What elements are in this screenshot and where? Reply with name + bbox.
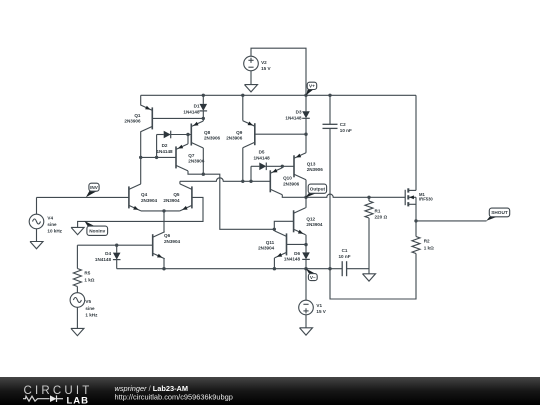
svg-text:15 V: 15 V bbox=[261, 66, 271, 71]
svg-text:Q5: Q5 bbox=[173, 192, 180, 197]
transistor Q12 bbox=[293, 210, 295, 232]
node D1 anode bbox=[202, 94, 205, 97]
svg-text:2N3904: 2N3904 bbox=[306, 222, 323, 227]
wire Q6 emitter bbox=[163, 259, 165, 269]
svg-text:V2: V2 bbox=[261, 60, 267, 65]
node C1 left junction bbox=[328, 267, 331, 270]
node Q9 base / Q13 emitter bbox=[304, 133, 307, 136]
voltage source V5 bbox=[70, 293, 85, 308]
wire Q1 emitter bbox=[140, 95, 142, 105]
wire Q6 collector bbox=[163, 211, 165, 232]
flag V- bbox=[306, 269, 315, 274]
ground below R1 bbox=[363, 274, 376, 281]
svg-text:2N3904: 2N3904 bbox=[141, 198, 158, 203]
svg-text:2N3906: 2N3906 bbox=[283, 181, 300, 186]
svg-text:Q8: Q8 bbox=[204, 130, 211, 135]
voltage source V1 bbox=[299, 300, 314, 315]
svg-text:Output: Output bbox=[310, 186, 326, 191]
capacitor C2 bbox=[329, 95, 331, 124]
resistor R5 bbox=[73, 269, 81, 287]
wire Q13 collector bbox=[305, 180, 307, 198]
diode D4 bbox=[116, 245, 118, 252]
svg-text:D5: D5 bbox=[259, 150, 265, 155]
node Q9 emitter rail bbox=[241, 94, 244, 97]
node Q11 emitter rail bbox=[273, 267, 276, 270]
node D4 tap bbox=[115, 244, 118, 247]
ground below V1 bbox=[300, 328, 313, 335]
node Q10 emitter join bbox=[281, 165, 284, 168]
transistor Q13 bbox=[293, 155, 295, 177]
node R1 tap bbox=[367, 196, 370, 199]
svg-text:C1: C1 bbox=[342, 248, 348, 253]
svg-text:Q1: Q1 bbox=[134, 113, 141, 118]
svg-text:wspringer / Lab23-AM: wspringer / Lab23-AM bbox=[115, 384, 189, 393]
voltage source V2 bbox=[244, 56, 259, 71]
transistor Q7 bbox=[175, 146, 177, 168]
wire V4 bottom bbox=[36, 229, 38, 242]
svg-text:V+: V+ bbox=[309, 84, 315, 89]
transistor Q5 bbox=[191, 186, 193, 208]
wire V4 top bbox=[36, 197, 38, 214]
node D2 anode riser bbox=[155, 156, 158, 159]
node tail junction bbox=[162, 209, 165, 212]
wire V1 top bbox=[305, 269, 307, 301]
node Output bbox=[304, 196, 307, 199]
svg-text:D2: D2 bbox=[162, 143, 168, 148]
wire Q10 collector bbox=[282, 195, 306, 198]
transistor Q10 bbox=[269, 170, 271, 192]
svg-text:NonInv: NonInv bbox=[89, 228, 105, 233]
ground below V4 bbox=[30, 242, 43, 249]
svg-text:Q4: Q4 bbox=[141, 192, 148, 197]
wire top V+ rail bbox=[141, 94, 416, 96]
wire Q11 collector bbox=[273, 229, 275, 231]
wire R5 riser bbox=[76, 245, 78, 268]
wire Q8 emitter bbox=[202, 118, 204, 121]
svg-text:D4: D4 bbox=[105, 251, 111, 256]
diode D5 bbox=[259, 163, 266, 171]
svg-text:R5: R5 bbox=[84, 270, 90, 275]
node V+ junction bbox=[304, 94, 307, 97]
logo resistor squiggle bbox=[23, 396, 50, 401]
wire V5 bottom bbox=[76, 307, 78, 328]
ground below V5 bbox=[71, 328, 84, 335]
ground NonInv bbox=[71, 227, 84, 234]
wire Output to gate with hop bbox=[306, 194, 405, 197]
wire Q9 base bbox=[255, 133, 306, 135]
svg-text:2N3904: 2N3904 bbox=[164, 239, 181, 244]
flag SHOUT bbox=[486, 217, 497, 221]
svg-text:D1: D1 bbox=[194, 104, 200, 109]
svg-text:15 V: 15 V bbox=[316, 309, 326, 314]
svg-text:INV: INV bbox=[90, 185, 99, 190]
svg-text:C2: C2 bbox=[340, 122, 346, 127]
svg-text:1N4148: 1N4148 bbox=[284, 256, 301, 261]
diode D1 bbox=[202, 95, 204, 104]
wire Q7 base bbox=[141, 156, 176, 158]
wire Q1 collector bbox=[140, 132, 142, 184]
svg-text:10 kHz: 10 kHz bbox=[47, 229, 62, 234]
diode D3 bbox=[305, 95, 307, 111]
svg-text:http://circuitlab.com/c959636k: http://circuitlab.com/c959636k9ubgp bbox=[115, 393, 233, 402]
wire Q4 collector join bbox=[140, 183, 142, 185]
node D5 riser join bbox=[249, 180, 252, 183]
node C2 top bbox=[328, 94, 331, 97]
node Q8 base / Q7 emitter bbox=[186, 133, 189, 136]
wire Q1 base bbox=[152, 117, 203, 119]
wire D2 anode bbox=[156, 135, 158, 158]
wire Q5 base loop NonInv bbox=[78, 197, 203, 227]
svg-text:Q7: Q7 bbox=[188, 153, 195, 158]
svg-text:sine: sine bbox=[47, 222, 57, 227]
wire Q13 emitter bbox=[305, 134, 307, 153]
flag NonInv bbox=[84, 221, 95, 227]
wire Q9 collector bbox=[242, 148, 244, 182]
resistor R1 bbox=[368, 197, 370, 201]
ground below V2 bbox=[250, 71, 252, 85]
svg-text:1N4148: 1N4148 bbox=[183, 109, 200, 114]
mosfet M1 bbox=[404, 190, 406, 205]
svg-text:V1: V1 bbox=[316, 303, 322, 308]
svg-text:SHOUT: SHOUT bbox=[491, 210, 508, 215]
node Q11 base junction bbox=[304, 243, 307, 246]
wire VAS to Q12 base bbox=[203, 174, 293, 229]
wire D5 cathode to Q13 base bbox=[266, 165, 294, 167]
wire R5 to V5 bbox=[76, 287, 78, 293]
svg-text:1 kHz: 1 kHz bbox=[85, 313, 98, 318]
svg-text:LAB: LAB bbox=[67, 396, 90, 405]
wire VAS mirror rail with hop bbox=[180, 178, 270, 181]
svg-text:10 nF: 10 nF bbox=[339, 254, 351, 259]
svg-text:1N4148: 1N4148 bbox=[285, 115, 302, 120]
svg-text:2N3906: 2N3906 bbox=[226, 136, 243, 141]
wire bottom V- rail bbox=[117, 268, 330, 270]
svg-text:2N3906: 2N3906 bbox=[188, 159, 205, 164]
node VAS top bbox=[202, 173, 205, 176]
svg-text:Q13: Q13 bbox=[307, 161, 316, 166]
wire Q12 collector bbox=[305, 197, 307, 208]
wire Q12 emitter bbox=[305, 235, 307, 245]
wire Q11 emitter bbox=[273, 258, 275, 269]
wire Q10 emitter bbox=[281, 166, 283, 168]
wire Q7 emitter bbox=[187, 135, 189, 144]
svg-text:1 kΩ: 1 kΩ bbox=[424, 245, 434, 250]
wire V2 to rail bbox=[251, 48, 306, 95]
diode D6 bbox=[305, 245, 307, 253]
svg-text:2N3906: 2N3906 bbox=[204, 136, 221, 141]
svg-text:Q12: Q12 bbox=[306, 216, 315, 221]
svg-text:1N4148: 1N4148 bbox=[157, 149, 174, 154]
wire D2 cathode bbox=[171, 134, 192, 136]
wire M1 drain bbox=[415, 95, 417, 190]
wire Q7 collector to VAS node bbox=[188, 171, 203, 174]
diode D2 bbox=[164, 131, 171, 139]
svg-text:V4: V4 bbox=[47, 215, 53, 220]
svg-text:1N4148: 1N4148 bbox=[95, 257, 112, 262]
resistor R2 bbox=[415, 221, 417, 237]
svg-text:R1: R1 bbox=[375, 209, 381, 214]
node Q9 collector join bbox=[241, 180, 244, 183]
wire Q5 collector bbox=[179, 181, 181, 184]
svg-text:Q10: Q10 bbox=[283, 176, 292, 181]
svg-text:D3: D3 bbox=[296, 110, 302, 115]
wire Q9 emitter bbox=[242, 95, 244, 120]
flag V+ bbox=[306, 89, 313, 95]
transistor Q8 bbox=[190, 124, 192, 146]
wire V1 bottom bbox=[305, 315, 307, 328]
wire INV net bbox=[37, 196, 129, 198]
wire Q11 base bbox=[287, 243, 307, 245]
node source junction bbox=[414, 219, 417, 222]
transistor Q6 bbox=[152, 234, 154, 256]
wire SHOUT bbox=[416, 220, 487, 222]
transistor Q11 bbox=[286, 233, 288, 255]
svg-text:220 Ω: 220 Ω bbox=[375, 215, 388, 220]
node Q1 collector tap bbox=[139, 156, 142, 159]
node V- junction bbox=[304, 267, 307, 270]
transistor Q1 bbox=[151, 107, 153, 129]
svg-text:2N3904: 2N3904 bbox=[163, 198, 180, 203]
svg-text:V5: V5 bbox=[85, 299, 91, 304]
footer bar bbox=[0, 377, 540, 405]
svg-text:2N3904: 2N3904 bbox=[258, 246, 275, 251]
wire D5 riser bbox=[250, 166, 252, 181]
svg-text:10 nF: 10 nF bbox=[340, 128, 352, 133]
svg-text:R2: R2 bbox=[424, 238, 430, 243]
logo diode bbox=[50, 395, 57, 402]
svg-text:V–: V– bbox=[310, 275, 316, 280]
svg-text:2N3906: 2N3906 bbox=[307, 167, 324, 172]
voltage source V4 bbox=[29, 214, 44, 229]
svg-text:IRF530: IRF530 bbox=[419, 196, 433, 201]
wire Q8 collector bbox=[202, 148, 204, 174]
flag INV bbox=[86, 191, 97, 197]
node Q11 collector junction bbox=[273, 228, 276, 231]
transistor Q4 bbox=[128, 186, 130, 208]
svg-text:1 kΩ: 1 kΩ bbox=[84, 278, 94, 283]
svg-text:Q9: Q9 bbox=[236, 130, 243, 135]
node Q6 emitter rail bbox=[162, 267, 165, 270]
transistor Q9 bbox=[254, 123, 256, 145]
svg-text:Q11: Q11 bbox=[266, 240, 275, 245]
svg-text:sine: sine bbox=[85, 306, 95, 311]
flag Output bbox=[305, 193, 316, 198]
node D1 cathode bbox=[202, 117, 205, 120]
capacitor C1 bbox=[330, 268, 342, 270]
wire Q6 base bbox=[77, 244, 152, 246]
wire common emitters bbox=[141, 210, 180, 212]
svg-text:2N3906: 2N3906 bbox=[124, 119, 141, 124]
svg-text:1N4148: 1N4148 bbox=[254, 155, 271, 160]
svg-text:Q6: Q6 bbox=[164, 233, 171, 238]
